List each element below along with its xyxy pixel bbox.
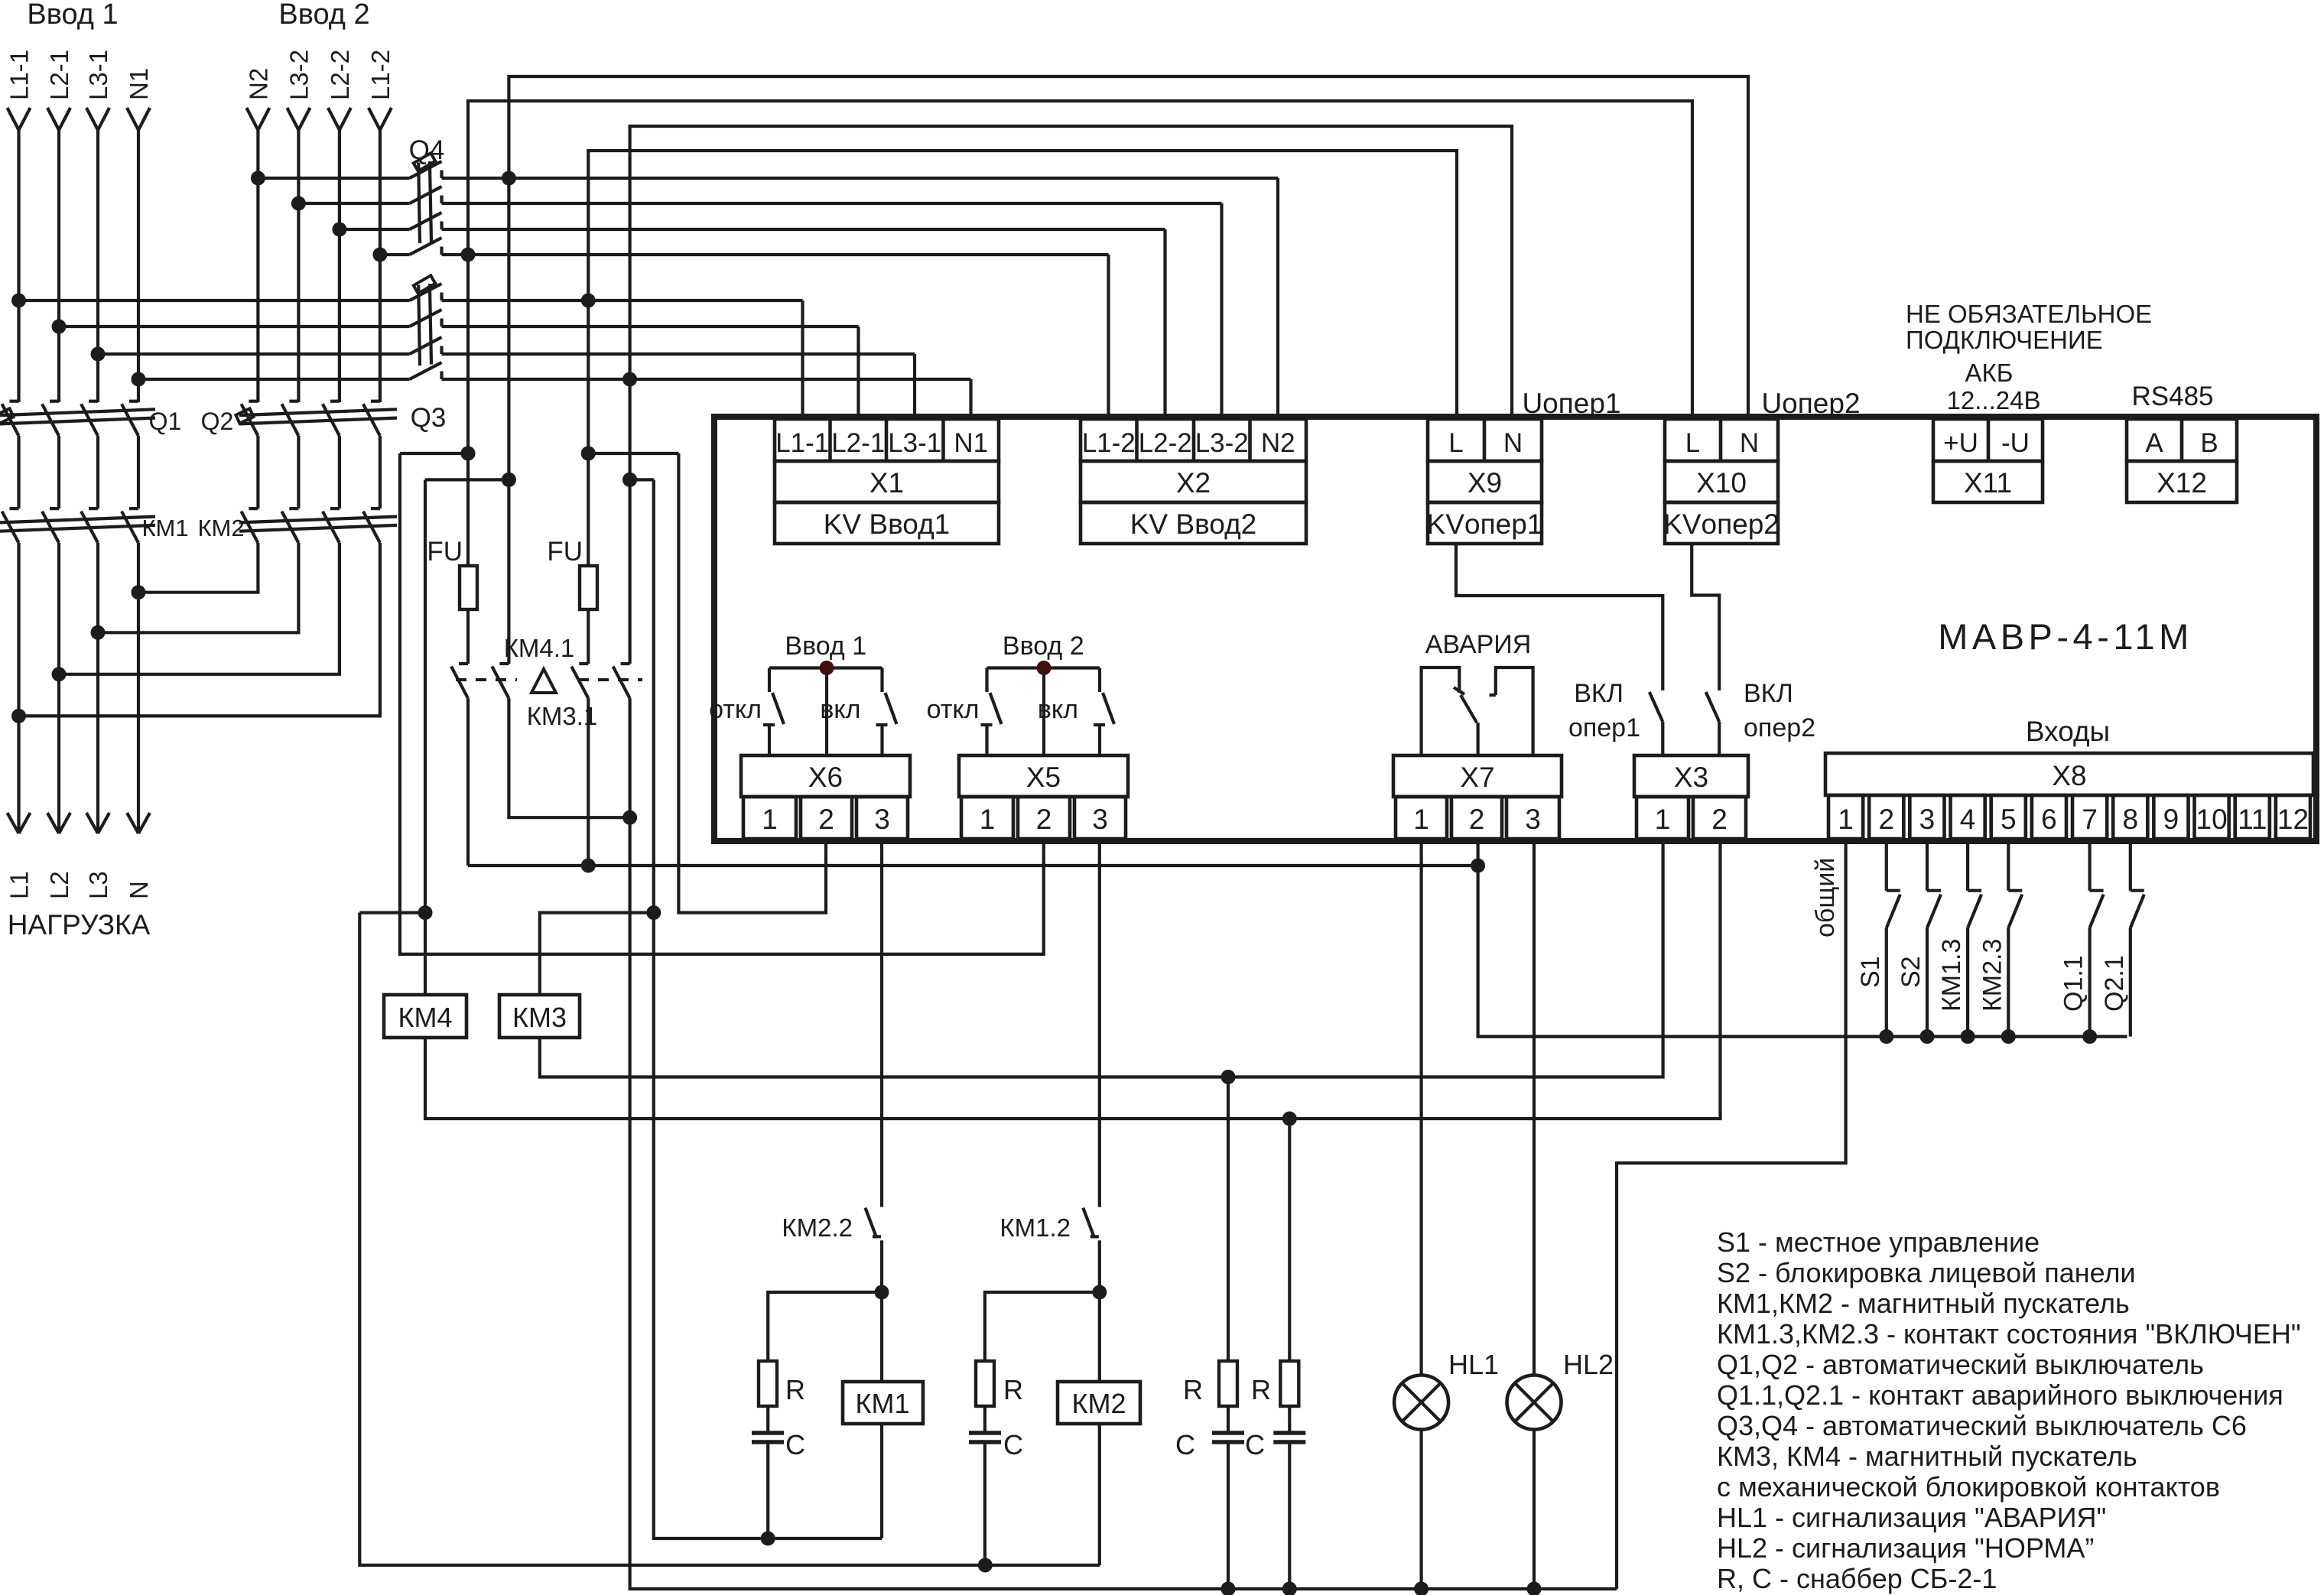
svg-text:N2: N2 [1261, 428, 1295, 458]
wire X5 pin2 to FU1 rail [400, 453, 1044, 954]
wire connector X5pin2 rail to FU1 [400, 452, 468, 455]
svg-text:N1: N1 [125, 68, 153, 100]
svg-text:RS485: RS485 [2131, 382, 2213, 411]
wire KM4.1-1 bottom to H1 [466, 698, 470, 866]
svg-text:FU: FU [427, 537, 463, 567]
svg-text:откл: откл [927, 695, 980, 724]
contact interlock pole [499, 662, 509, 665]
svg-text:X8: X8 [2052, 760, 2086, 791]
svg-text:L1: L1 [5, 871, 34, 899]
coil KM3 [499, 995, 580, 1038]
svg-text:Входы: Входы [2026, 716, 2110, 747]
svg-text:2: 2 [1878, 804, 1894, 835]
svg-text:L1-2: L1-2 [366, 50, 395, 100]
svg-text:с механической блокировкой кон: с механической блокировкой контактов [1717, 1471, 2220, 1502]
svg-text:7: 7 [2082, 804, 2098, 835]
wire Q4 pole1 output to X2 N2 [442, 177, 1279, 180]
svg-text:R: R [785, 1374, 805, 1405]
node tap L3-1 to Q3 [91, 347, 106, 362]
wire between breaker and contactor [297, 436, 300, 508]
svg-text:Q3,Q4 - автоматический выключа: Q3,Q4 - автоматический выключатель С6 [1717, 1410, 2247, 1441]
svg-text:5: 5 [2001, 804, 2017, 835]
contactor KM2 linkage [239, 517, 397, 523]
wire load line N [137, 543, 140, 833]
svg-text:АВАРИЯ: АВАРИЯ [1425, 630, 1532, 659]
contactor KM2 poles [249, 507, 258, 510]
svg-text:КМ3: КМ3 [512, 1002, 567, 1033]
svg-text:L1-1: L1-1 [775, 428, 829, 458]
contact KM1.2 [1083, 1208, 1094, 1236]
svg-text:N2: N2 [244, 68, 272, 100]
svg-text:1: 1 [1655, 804, 1671, 835]
svg-text:N: N [1503, 428, 1523, 458]
svg-text:L2-2: L2-2 [1139, 428, 1192, 458]
wire between breaker and contactor [57, 436, 60, 508]
contact KM2.2 [866, 1208, 876, 1236]
svg-text:R: R [1251, 1374, 1271, 1405]
svg-text:N: N [125, 881, 153, 899]
svg-text:3: 3 [1919, 804, 1936, 835]
svg-text:+U: +U [1943, 428, 1978, 458]
svg-text:КМ2.3: КМ2.3 [1978, 939, 2007, 1012]
svg-text:опер2: опер2 [1744, 713, 1815, 742]
svg-text:B: B [2200, 428, 2218, 458]
contact interlock pole [459, 662, 468, 665]
capacitor C [1227, 1406, 1230, 1433]
breaker Q4 poles [410, 161, 442, 178]
svg-text:4: 4 [1960, 804, 1976, 835]
node tap L1-1 to Q3 [11, 294, 26, 308]
wire KM4 coil top riser [424, 479, 427, 995]
terminal X10 KVопер2 [1665, 419, 1778, 461]
svg-text:Q1.1,Q2.1 - контакт аварийного: Q1.1,Q2.1 - контакт аварийного выключени… [1717, 1379, 2283, 1411]
svg-text:X1: X1 [869, 467, 904, 499]
svg-text:Q1: Q1 [149, 408, 182, 435]
wire N1 rail down to KM1 return [654, 479, 882, 1538]
node tap L1-2 to Q4 [372, 248, 387, 262]
svg-text:Q2: Q2 [201, 408, 234, 435]
svg-text:L3-1: L3-1 [888, 428, 941, 458]
wire Q4 pole2 output to X2 L3-2 [442, 202, 1222, 205]
svg-text:Q3: Q3 [411, 403, 447, 433]
svg-text:KV Ввод1: KV Ввод1 [824, 508, 951, 540]
svg-text:2: 2 [1036, 804, 1052, 835]
svg-text:X11: X11 [1964, 467, 2012, 499]
svg-text:КМ2.2: КМ2.2 [782, 1213, 853, 1242]
breaker Q2 poles [249, 400, 258, 403]
svg-text:HL1: HL1 [1448, 1349, 1499, 1380]
svg-text:КМ3, КМ4 - магнитный пускатель: КМ3, КМ4 - магнитный пускатель [1717, 1441, 2137, 1472]
wire X6 pin3 down to KM2.2 [880, 842, 883, 1207]
svg-text:A: A [2145, 428, 2163, 458]
svg-text:ВКЛ: ВКЛ [1744, 679, 1793, 708]
svg-text:L2-2: L2-2 [326, 50, 354, 100]
svg-text:Uопер1: Uопер1 [1522, 388, 1620, 419]
switch S1 [1885, 842, 1888, 891]
svg-text:L2-1: L2-1 [831, 428, 885, 458]
svg-text:R: R [1183, 1374, 1203, 1405]
contactor KM1 linkage [0, 517, 155, 523]
contact interlock pole [579, 662, 588, 665]
svg-text:ПОДКЛЮЧЕНИЕ: ПОДКЛЮЧЕНИЕ [1906, 326, 2103, 354]
interlock triangle [531, 669, 556, 693]
relay contact АВАРИЯ right [1496, 668, 1533, 755]
svg-text:КМ4.1: КМ4.1 [504, 634, 575, 662]
svg-text:L3-1: L3-1 [84, 50, 112, 100]
switch КМ2.3 [2007, 842, 2010, 891]
svg-text:L3-2: L3-2 [284, 50, 313, 100]
resistor R KM2 snubber [976, 1361, 994, 1406]
svg-text:Q1,Q2 - автоматический выключа: Q1,Q2 - автоматический выключатель [1717, 1349, 2204, 1380]
svg-text:КМ1,КМ2 - магнитный пускатель: КМ1,КМ2 - магнитный пускатель [1717, 1288, 2130, 1319]
wire N2 rail riser [507, 178, 510, 664]
terminal X9 KVопер1 [1428, 419, 1542, 461]
wire obshchiy X8 pin1 [1617, 842, 1846, 1589]
svg-text:3: 3 [1092, 804, 1108, 835]
terminal X3 [1634, 755, 1748, 797]
wire H1 interlock outputs to X7 pin2 [468, 864, 1478, 867]
relay contact АВАРИЯ left [1422, 668, 1460, 755]
wire connector KM4 coil to N2 rail [425, 478, 509, 481]
svg-text:Q1.1: Q1.1 [2059, 955, 2088, 1012]
wire KM1 snubber branch [768, 1292, 882, 1361]
wire Q3 pole3 output to X1 L3-1 [442, 352, 915, 356]
wire load line L3 [96, 543, 99, 833]
wire Q3 pole4 output to X1 N1 [442, 378, 971, 381]
wire KM3 coil bottom to X3 pin1 [540, 842, 1663, 1077]
lamp HL1 [1419, 842, 1422, 1376]
wire N1 rail riser [628, 379, 631, 664]
wire KVопер2 output [1692, 543, 1719, 690]
wire snubber column [1288, 1119, 1291, 1361]
svg-text:KV Ввод2: KV Ввод2 [1130, 508, 1257, 540]
switch Q2.1 [2129, 842, 2132, 891]
wire connector FU2 rail to X6pin2 riser [588, 452, 678, 455]
svg-text:C: C [1003, 1429, 1023, 1460]
interlock dashed linkage [456, 678, 642, 681]
wire KM2 output to load line [19, 543, 380, 716]
svg-text:10: 10 [2196, 804, 2228, 835]
device block МАВР-4-11М [714, 417, 2316, 841]
svg-text:1: 1 [1838, 804, 1854, 835]
node tap L2-2 to Q4 [332, 223, 346, 237]
svg-text:FU: FU [547, 537, 583, 567]
switch S2 [1926, 842, 1929, 891]
svg-text:6: 6 [2041, 804, 2057, 835]
wire KM1.2 to KM2 coil [1098, 1240, 1101, 1382]
svg-text:HL2 - сигнализация "НОРМА”: HL2 - сигнализация "НОРМА” [1717, 1532, 2094, 1564]
wire KM2-return link piece [359, 911, 425, 914]
terminal X6 [741, 755, 910, 797]
resistor R KM1 snubber [759, 1361, 777, 1406]
wire KM2 coil bottom return [359, 913, 1100, 1565]
svg-text:Uопер2: Uопер2 [1761, 388, 1860, 419]
svg-text:S1: S1 [1856, 956, 1885, 988]
wire KM4 coil bottom to X3 pin2 [425, 842, 1721, 1119]
svg-text:Q2.1: Q2.1 [2100, 955, 2129, 1012]
svg-text:Ввод 2: Ввод 2 [1003, 632, 1084, 661]
svg-text:1: 1 [980, 804, 996, 835]
svg-text:KVопер1: KVопер1 [1427, 508, 1543, 540]
svg-text:X9: X9 [1468, 467, 1502, 499]
svg-text:1: 1 [762, 804, 778, 835]
svg-text:-U: -U [2001, 428, 2030, 458]
capacitor C [1288, 1406, 1291, 1433]
wire line D L1-1 to X9 L [588, 151, 1457, 419]
svg-text:общий: общий [1811, 858, 1840, 937]
wire X6 pin2 to FU2 rail [678, 453, 826, 913]
wire load line L2 [57, 543, 60, 833]
terminal X8 [1825, 753, 2313, 795]
wire between breaker and contactor [17, 436, 20, 508]
svg-text:2: 2 [1711, 804, 1728, 835]
svg-text:НЕ ОБЯЗАТЕЛЬНОЕ: НЕ ОБЯЗАТЕЛЬНОЕ [1906, 300, 2152, 328]
svg-text:X7: X7 [1460, 762, 1494, 793]
resistor R [1219, 1361, 1237, 1406]
terminal X7 [1393, 755, 1562, 797]
node tap L3-2 to Q4 [291, 197, 306, 211]
svg-text:НАГРУЗКА: НАГРУЗКА [8, 909, 151, 940]
wire FU2 riser L1-1 rail [587, 300, 590, 664]
svg-text:C: C [1175, 1429, 1195, 1460]
svg-text:L3-2: L3-2 [1195, 428, 1249, 458]
svg-text:L: L [1448, 428, 1463, 458]
svg-text:КМ4: КМ4 [398, 1002, 453, 1033]
breaker Q3 linkage [418, 285, 420, 366]
svg-text:N1: N1 [954, 428, 988, 458]
wire KM2 output to load line [138, 543, 258, 593]
wire line A N2 to X10 N [509, 76, 1748, 419]
svg-text:12: 12 [2277, 804, 2309, 835]
svg-text:X6: X6 [808, 762, 843, 793]
wire KM4.1-2 bottom elbow [509, 698, 629, 817]
svg-text:X10: X10 [1696, 467, 1747, 499]
svg-text:2: 2 [1469, 804, 1485, 835]
svg-text:X3: X3 [1674, 762, 1708, 793]
capacitor C KM1 snubber [766, 1406, 769, 1433]
wire KM3 coil top link to N1 rail [540, 913, 654, 995]
svg-text:C: C [1245, 1429, 1265, 1460]
wire FU1 riser L1-2 rail [466, 255, 470, 664]
svg-text:3: 3 [1525, 804, 1541, 835]
svg-text:11: 11 [2238, 804, 2267, 835]
coil KM1 [843, 1382, 923, 1424]
svg-text:L2: L2 [45, 871, 73, 899]
svg-text:12...24В: 12...24В [1947, 386, 2041, 414]
svg-text:3: 3 [874, 804, 890, 835]
wire KM1 coil bottom [880, 1424, 883, 1538]
wire KM2 snubber branch [985, 1292, 1100, 1361]
svg-text:откл: откл [709, 695, 762, 724]
svg-text:S2: S2 [1897, 956, 1926, 988]
wire load line L1 [17, 543, 20, 833]
wire line C N1 to X9 N [630, 126, 1512, 419]
terminal X2 KV Ввод2 [1081, 419, 1306, 461]
svg-text:R, C - снаббер СБ-2-1: R, C - снаббер СБ-2-1 [1717, 1563, 1997, 1594]
svg-text:КМ2: КМ2 [1072, 1388, 1126, 1419]
coil KM2 [1058, 1382, 1140, 1424]
wire KM2.2 to KM1 coil [880, 1240, 883, 1382]
svg-text:Q4: Q4 [409, 135, 445, 165]
svg-text:X12: X12 [2157, 467, 2207, 499]
terminal X11 АКБ [1933, 419, 2043, 461]
breaker Q2 linkage [239, 409, 397, 415]
breaker Q1 linkage [0, 409, 155, 415]
wire X5 pin3 down to KM1.2 [1098, 842, 1101, 1207]
svg-text:N: N [1740, 428, 1759, 458]
coil KM4 [384, 995, 466, 1038]
wire line B L1-2 to X10 L [468, 101, 1692, 419]
resistor R [1280, 1361, 1299, 1406]
svg-text:9: 9 [2163, 804, 2179, 835]
wire KM3.1-1 bottom [587, 698, 590, 866]
svg-text:КМ1: КМ1 [141, 515, 188, 541]
svg-text:Ввод 1: Ввод 1 [785, 632, 866, 661]
svg-text:1: 1 [1413, 804, 1429, 835]
svg-text:HL1 - сигнализация "АВАРИЯ": HL1 - сигнализация "АВАРИЯ" [1717, 1502, 2106, 1533]
svg-text:C: C [785, 1429, 805, 1460]
wire between breaker and contactor [379, 436, 382, 508]
wire bottom common bus [1221, 1582, 1236, 1595]
svg-text:X2: X2 [1176, 467, 1211, 499]
svg-text:L3: L3 [84, 871, 112, 899]
svg-text:МАВР-4-11М: МАВР-4-11М [1938, 616, 2193, 657]
terminal X5 [959, 755, 1128, 797]
svg-text:8: 8 [2122, 804, 2138, 835]
wire Q4 pole3 output to X2 L2-2 [442, 228, 1165, 231]
svg-text:КМ2: КМ2 [197, 515, 244, 541]
svg-text:КМ1.3: КМ1.3 [1937, 939, 1966, 1012]
wire Q3 pole1 output to X1 L1-1 [442, 299, 803, 302]
breaker Q3 poles [410, 284, 442, 300]
wire between breaker and contactor [96, 436, 99, 508]
svg-text:КМ1.3,КМ2.3 - контакт состояни: КМ1.3,КМ2.3 - контакт состояния "ВКЛЮЧЕН… [1717, 1318, 2301, 1350]
wire connector N1 rail to KM1-return riser [630, 478, 654, 481]
wire KVопер1 output [1456, 543, 1663, 690]
switch КМ1.3 [1966, 842, 1969, 891]
wire Q3 pole2 output to X1 L2-1 [442, 325, 859, 328]
wire KM2 output to load line [98, 543, 298, 632]
svg-text:S2 - блокировка лицевой панели: S2 - блокировка лицевой панели [1717, 1257, 2136, 1288]
svg-text:АКБ: АКБ [1965, 359, 2014, 387]
svg-text:HL2: HL2 [1563, 1349, 1614, 1380]
svg-text:R: R [1003, 1374, 1023, 1405]
svg-text:L: L [1685, 428, 1700, 458]
switch Q1.1 [2088, 842, 2092, 891]
wire between breaker and contactor [137, 436, 140, 508]
svg-text:КМ1.2: КМ1.2 [999, 1213, 1071, 1242]
svg-text:вкл: вкл [820, 695, 860, 724]
svg-text:KVопер2: KVопер2 [1663, 508, 1780, 540]
capacitor C KM2 snubber [983, 1406, 986, 1433]
terminal X12 RS485 [2127, 419, 2237, 461]
wire KM2 output to load line [59, 543, 340, 674]
svg-text:Ввод 2: Ввод 2 [278, 0, 369, 31]
wire KM3.1-2 bottom to bottom bus [630, 698, 1617, 1589]
wire KM2 coil bottom [1098, 1424, 1101, 1565]
breaker Q1 poles [10, 400, 19, 403]
node tap L2-1 to Q3 [52, 320, 67, 334]
lamp HL2 [1533, 842, 1536, 1376]
svg-text:L1-1: L1-1 [5, 50, 34, 100]
terminal X1 KV Ввод1 [775, 419, 999, 461]
svg-text:опер1: опер1 [1568, 713, 1640, 742]
svg-text:КМ1: КМ1 [856, 1388, 910, 1419]
wire snubber column [1227, 1077, 1230, 1362]
svg-text:L1-2: L1-2 [1082, 428, 1136, 458]
node tap N2 to Q4 [251, 171, 265, 186]
svg-text:2: 2 [818, 804, 834, 835]
node tap N1 to Q3 [132, 372, 146, 387]
svg-text:вкл: вкл [1038, 695, 1078, 724]
svg-text:ВКЛ: ВКЛ [1574, 679, 1624, 708]
breaker Q4 linkage [418, 163, 420, 244]
contactor KM1 poles [10, 507, 19, 510]
wire X7 pin2 down to switch bus [1478, 842, 2127, 1037]
svg-text:S1 - местное управление: S1 - местное управление [1717, 1226, 2040, 1258]
svg-text:Ввод 1: Ввод 1 [27, 0, 118, 31]
contact interlock pole [621, 662, 630, 665]
wire between breaker and contactor [338, 436, 341, 508]
wire Q4 pole4 output to X2 L1-2 [442, 253, 1109, 256]
svg-text:L2-1: L2-1 [45, 50, 73, 100]
wire between breaker and contactor [256, 436, 259, 508]
svg-text:X5: X5 [1026, 762, 1061, 793]
